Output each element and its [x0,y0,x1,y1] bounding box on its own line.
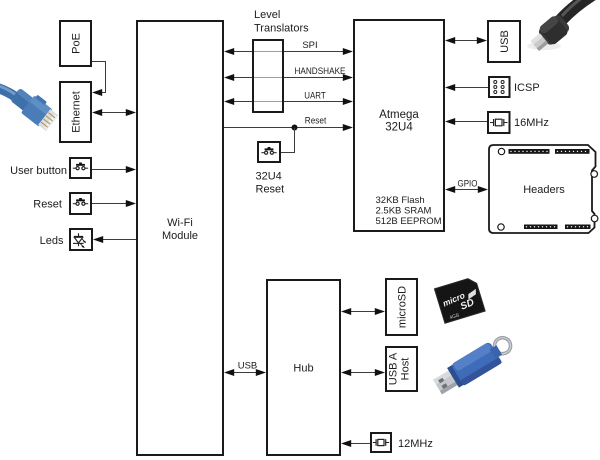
svg-text:microSD: microSD [397,286,409,328]
wire Ethernet-WiFi [92,109,136,116]
crystal 16MHz [488,112,510,133]
led Leds [70,229,92,250]
svg-text:32KB Flash: 32KB Flash [376,195,425,206]
svg-text:Ethernet: Ethernet [71,91,83,133]
wire Reset signal [223,124,353,131]
box Level Translators [253,40,283,112]
wire WiFi-Hub USB [224,369,266,376]
svg-text:User button: User button [10,165,67,177]
svg-text:Reset: Reset [33,199,62,211]
photo Ethernet cable [0,84,61,133]
svg-text:Atmega: Atmega [379,109,419,121]
wire 16MHz-Atmega [445,118,490,125]
svg-text:USB: USB [499,30,511,53]
svg-text:GPIO: GPIO [458,179,478,190]
svg-text:USB: USB [238,361,258,372]
wire junction to 32U4 Reset button [280,128,295,153]
svg-text:16MHz: 16MHz [514,117,549,129]
svg-text:Reset: Reset [305,116,327,127]
svg-text:2.5KB SRAM: 2.5KB SRAM [376,206,432,217]
wire UserButton-WiFi [91,166,136,173]
svg-text:Module: Module [162,230,198,242]
svg-text:Host: Host [400,358,412,381]
box Hub [267,280,340,455]
wire ICSP-Atmega [445,84,489,91]
wire Reset-WiFi [91,200,136,207]
svg-text:Headers: Headers [523,184,565,196]
connector ICSP [489,77,510,97]
svg-text:32U4: 32U4 [256,171,282,183]
wire SPI [224,48,353,55]
wire WiFi-Leds [93,236,137,243]
box USB A Host [386,347,417,391]
button 32U4 Reset [258,142,280,162]
svg-text:512B EEPROM: 512B EEPROM [376,216,442,227]
wire Hub-USBAHost [341,369,385,376]
box Atmega 32U4 [354,20,444,231]
wire PoE to Ethernet [91,62,106,97]
button UserButton [70,158,91,178]
wire Atmega-USB [445,37,487,44]
svg-text:SPI: SPI [302,40,317,51]
node Reset junction [292,125,298,131]
photo micro-USB cable [527,0,593,55]
box WiFi Module [137,21,223,455]
photo USB flash drive [431,333,517,398]
svg-text:12MHz: 12MHz [398,438,433,450]
wire GPIO Atmega-Headers [445,186,488,193]
button Reset [70,193,91,214]
svg-text:Hub: Hub [293,363,313,375]
svg-text:UART: UART [304,90,326,101]
svg-text:Reset: Reset [256,184,285,196]
label 32U4 Reset [256,171,285,196]
box Ethernet [60,82,91,142]
svg-text:HANDSHAKE: HANDSHAKE [295,66,346,77]
svg-text:Level: Level [254,9,280,21]
svg-text:Wi-Fi: Wi-Fi [167,217,193,229]
box PoE [60,21,91,66]
wire HANDSHAKE [224,74,353,81]
svg-text:USB A: USB A [388,352,400,385]
wire Hub-microSD [341,308,385,315]
wire UART [224,98,353,105]
svg-text:Leds: Leds [40,235,64,247]
board Headers [489,145,598,233]
photo microSD card [434,277,485,324]
svg-text:32U4: 32U4 [385,122,413,134]
svg-text:ICSP: ICSP [514,82,540,94]
box microSD [386,279,417,335]
svg-text:PoE: PoE [71,33,83,54]
wire 12MHz-Hub [341,440,371,447]
crystal 12MHz [371,433,391,452]
label Level Translators [254,9,309,35]
box USB [488,21,520,62]
svg-text:Translators: Translators [254,23,309,35]
